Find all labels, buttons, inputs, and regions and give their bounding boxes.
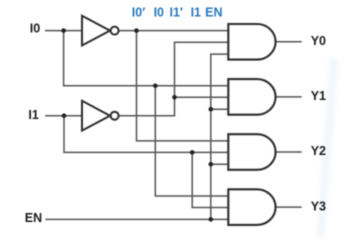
svg-text:I1: I1 — [191, 6, 201, 20]
svg-text:I1′: I1′ — [169, 6, 182, 20]
svg-text:Y2: Y2 — [311, 144, 326, 158]
svg-text:EN: EN — [25, 211, 42, 225]
svg-text:Y0: Y0 — [311, 34, 326, 48]
svg-text:I1: I1 — [28, 108, 38, 122]
svg-text:Y1: Y1 — [311, 89, 326, 103]
svg-text:EN: EN — [205, 6, 222, 20]
svg-text:Y3: Y3 — [311, 199, 326, 213]
svg-text:I0: I0 — [30, 22, 40, 36]
svg-text:I0: I0 — [154, 6, 164, 20]
svg-text:I0′: I0′ — [132, 6, 145, 20]
